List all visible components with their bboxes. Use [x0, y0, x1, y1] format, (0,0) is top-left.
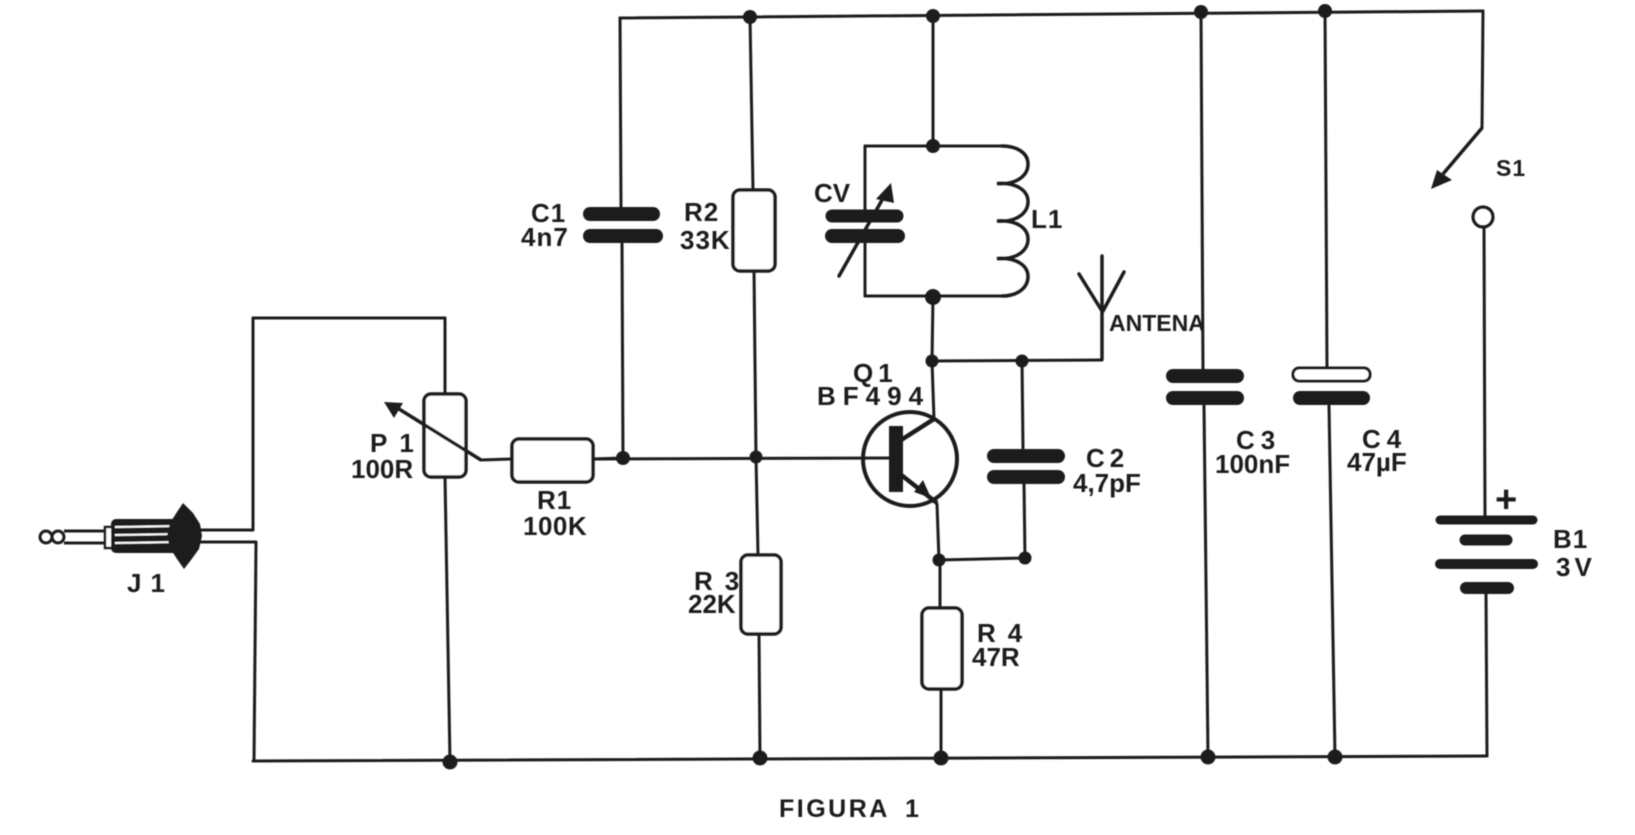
capacitor C1 — [590, 214, 656, 236]
capacitor C3 — [1173, 376, 1237, 398]
wire C3 bottom — [1204, 406, 1208, 757]
antenna — [1079, 256, 1124, 359]
potentiometer P1 — [384, 394, 481, 477]
junction dot bottom rail C3 — [1201, 750, 1216, 765]
wire emitter junction to C2 bottom — [939, 558, 1025, 560]
wire C1 vertical lower — [622, 243, 623, 458]
svg-text:4n7: 4n7 — [521, 222, 569, 252]
wire base line — [593, 458, 889, 459]
svg-text:R2: R2 — [684, 197, 719, 227]
junction dot top rail tank — [926, 9, 940, 23]
wire tank bottom to collector junction — [932, 297, 933, 361]
svg-text:100nF: 100nF — [1215, 449, 1290, 479]
svg-text:CV: CV — [814, 178, 851, 208]
wire J1 bottom lead — [200, 541, 256, 544]
wire left loop top horizontal — [253, 317, 445, 320]
transistor Q1 — [863, 412, 957, 506]
wire P1 bottom feed — [445, 477, 450, 762]
svg-text:BF494: BF494 — [817, 381, 930, 411]
wire collector junction to transistor — [932, 361, 934, 419]
svg-text:47R: 47R — [972, 642, 1020, 672]
wire tank bottom horizontal — [865, 295, 1002, 298]
svg-text:47µF: 47µF — [1347, 447, 1407, 477]
junction dot C2 top — [1016, 355, 1029, 368]
wire R3 bottom — [759, 634, 760, 758]
wire left loop vertical lower — [254, 543, 256, 761]
junction dot tank bottom — [925, 289, 941, 305]
wire P1 top feed — [444, 318, 447, 394]
wire bottom rail — [253, 756, 1487, 761]
resistor R2 — [733, 190, 775, 271]
wire top rail to tank top — [932, 16, 935, 146]
resistor R4 — [922, 608, 962, 689]
wire P1 wiper to R1 — [481, 459, 512, 460]
variable capacitor CV — [832, 193, 898, 276]
wire R4 to bottom rail — [940, 689, 943, 758]
svg-text:+: + — [1495, 479, 1517, 521]
svg-text:22K: 22K — [688, 589, 736, 619]
wire C4 bottom — [1329, 406, 1335, 757]
wire collector junction to antenna — [932, 360, 1102, 361]
resistor R1 — [512, 439, 593, 482]
svg-text:S1: S1 — [1496, 155, 1526, 181]
wire tank left vertical — [864, 146, 867, 210]
svg-text:B1: B1 — [1553, 524, 1588, 554]
wire R3 top — [756, 457, 758, 555]
junction dot bottom rail R3 — [753, 751, 768, 766]
junction dot base C1 — [616, 451, 630, 465]
switch S1 — [1431, 128, 1493, 227]
jack J1 — [40, 503, 202, 569]
wire R2 top — [750, 17, 753, 190]
junction dot bottom rail R4 — [934, 751, 949, 766]
wire C3 top — [1201, 12, 1203, 369]
svg-text:J1: J1 — [127, 568, 174, 598]
resistor R3 — [741, 555, 781, 634]
svg-text:100R: 100R — [351, 454, 413, 484]
capacitor C4 electrolytic — [1293, 368, 1370, 398]
wire C1 vertical upper — [620, 18, 621, 207]
wire switch to battery — [1484, 227, 1485, 516]
junction dot top rail R2 — [743, 10, 757, 24]
junction dot top rail C4 — [1318, 4, 1332, 18]
capacitor C2 — [994, 456, 1058, 477]
wire battery to bottom rail — [1486, 594, 1487, 756]
wire tank left vertical lower — [864, 243, 867, 296]
svg-text:ANTENA: ANTENA — [1109, 310, 1205, 336]
junction dot tank top — [926, 139, 940, 153]
junction dot bottom rail P1 — [443, 755, 458, 770]
svg-text:1: 1 — [905, 795, 919, 823]
wire top-right corner down to switch — [1482, 11, 1483, 128]
wire R1 right to junction — [593, 458, 624, 459]
junction dot collector node — [926, 355, 939, 368]
svg-text:100K: 100K — [523, 511, 587, 541]
wire emitter down — [937, 504, 939, 560]
svg-text:4,7pF: 4,7pF — [1073, 468, 1141, 498]
junction dot top rail C3 — [1194, 5, 1208, 19]
wire J1 top lead — [200, 529, 253, 532]
wire C4 top — [1325, 11, 1327, 367]
wire R2 to base line — [754, 270, 756, 457]
junction dot base R2R3 — [750, 451, 763, 464]
wire C2 vertical bottom — [1024, 484, 1025, 558]
junction dot bottom rail C4 — [1328, 750, 1343, 765]
junction dot C2 bottom — [1019, 552, 1032, 565]
svg-text:3V: 3V — [1556, 552, 1596, 582]
svg-text:FIGURA: FIGURA — [779, 795, 890, 823]
battery B1 — [1440, 520, 1533, 588]
svg-text:33K: 33K — [680, 225, 731, 255]
inductor L1 — [997, 146, 1028, 296]
wire emitter to R4 — [939, 560, 942, 608]
wire left loop vertical — [252, 318, 255, 529]
wire top rail — [620, 11, 1483, 18]
svg-text:L1: L1 — [1031, 204, 1063, 234]
junction dot emitter — [933, 554, 946, 567]
wire tank top horizontal — [865, 145, 1002, 148]
wire C2 vertical top — [1022, 361, 1023, 448]
